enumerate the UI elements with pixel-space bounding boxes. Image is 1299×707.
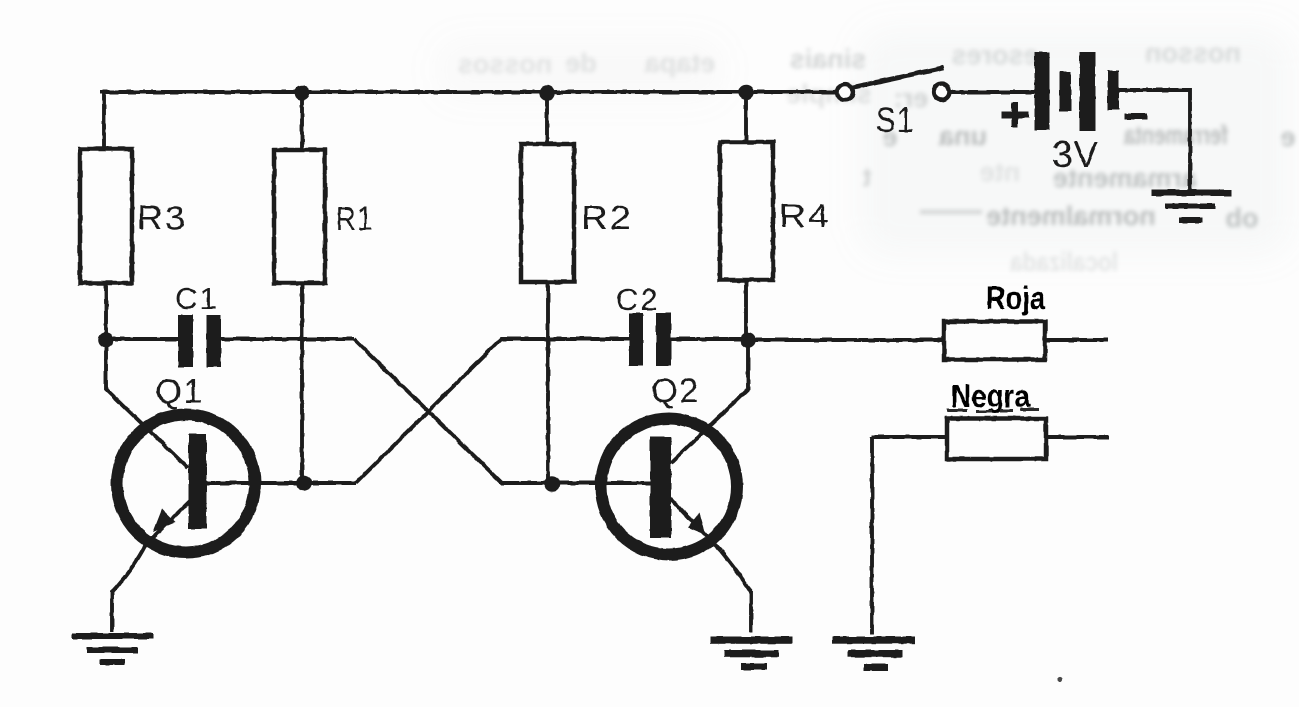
resistor R4 — [720, 142, 773, 280]
capacitor C2 — [616, 282, 671, 366]
paper shading wash — [440, 30, 1290, 255]
node rail/R4 — [738, 84, 754, 100]
wire Roja row right — [1045, 338, 1108, 342]
node junction R3/C1 — [98, 332, 114, 348]
wire R1 top lead — [300, 92, 304, 150]
wire Roja row left — [755, 338, 944, 342]
svg-text:t: t — [863, 162, 872, 192]
svg-text:R1: R1 — [336, 200, 374, 237]
wire Q1 base row — [206, 481, 356, 485]
svg-text:Roja: Roja — [986, 280, 1045, 316]
svg-text:R4: R4 — [779, 197, 831, 234]
wire R4 bottom lead — [744, 280, 748, 340]
ground GND3 (Negra lead) — [832, 637, 915, 672]
svg-text:Negra: Negra — [951, 378, 1030, 414]
svg-text:Q2: Q2 — [651, 372, 700, 410]
wire Negra row right — [1046, 435, 1109, 439]
svg-text:Q1: Q1 — [155, 373, 204, 411]
capacitor C1 — [175, 281, 221, 367]
node R2/Q2 base — [544, 476, 560, 492]
node R4/C2/Roja junction — [740, 332, 756, 348]
wire battery to ground corner — [1117, 90, 1190, 191]
svg-text:sinais: sinais — [790, 44, 867, 74]
svg-text:C1: C1 — [175, 281, 219, 316]
wire R2 top lead — [545, 92, 549, 145]
node rail/R1 — [294, 85, 310, 101]
svg-text:una: una — [938, 121, 987, 151]
switch S1 — [837, 68, 949, 141]
svg-text:R2: R2 — [581, 199, 633, 236]
wire R3 top lead — [102, 90, 106, 150]
wire R1 bottom lead — [300, 283, 304, 483]
svg-text:etapa: etapa — [644, 48, 716, 78]
wire cross diagonal up (Q1 base to C2 row) — [356, 339, 629, 483]
wire C1 right to bend — [221, 337, 354, 341]
wire R3 bottom lead — [104, 283, 108, 341]
node R1/Q1 base — [296, 475, 312, 491]
wire R2 bottom lead — [546, 282, 550, 484]
resistor R2 — [521, 144, 574, 282]
svg-text:nosson: nosson — [1145, 38, 1241, 68]
probe lead Roja — [944, 280, 1045, 360]
svg-text:ferramenta: ferramenta — [1123, 120, 1228, 150]
wire top supply rail — [100, 90, 838, 94]
battery BT1 3V — [1001, 52, 1148, 175]
svg-text:ob: ob — [1226, 203, 1259, 233]
node rail/R2 — [539, 85, 555, 101]
svg-text:de: de — [565, 48, 597, 78]
stray ink speck — [1057, 676, 1062, 681]
wire R4 top lead — [744, 92, 748, 142]
svg-text:C2: C2 — [616, 282, 660, 317]
ground GND1 (Q1 emitter) — [72, 633, 153, 665]
svg-text:localizada: localizada — [1009, 247, 1118, 277]
wire cross diagonal down (C1 to Q2 base row) — [354, 339, 650, 483]
wire S1 to battery — [949, 90, 1035, 94]
wire C1 left lead — [106, 337, 178, 341]
probe lead Negra — [947, 378, 1046, 459]
svg-text:S1: S1 — [876, 101, 915, 140]
svg-text:normalmente: normalmente — [986, 201, 1156, 231]
svg-text:esores: esores — [951, 40, 1038, 70]
wire C2 right lead to R4 node — [671, 337, 748, 341]
ground GND2 (Q2 emitter) — [710, 637, 793, 671]
svg-text:e: e — [1280, 122, 1295, 152]
svg-text:nossos: nossos — [458, 49, 553, 79]
svg-text:R3: R3 — [137, 199, 187, 236]
svg-text:simple: simple — [786, 79, 872, 109]
transistor Q2 — [601, 372, 751, 632]
ground GND4 (battery minus) — [1152, 190, 1231, 224]
resistor R1 — [274, 150, 325, 283]
transistor Q1 — [106, 341, 255, 632]
wire Negra row left — [872, 435, 947, 439]
svg-text:3V: 3V — [1052, 134, 1099, 175]
resistor R3 — [80, 149, 132, 283]
wire Negra to ground — [870, 437, 874, 634]
wire Q2 collector — [671, 340, 748, 463]
ghost bleed-through text layer — [458, 38, 1296, 277]
svg-text:nte: nte — [980, 157, 1021, 187]
